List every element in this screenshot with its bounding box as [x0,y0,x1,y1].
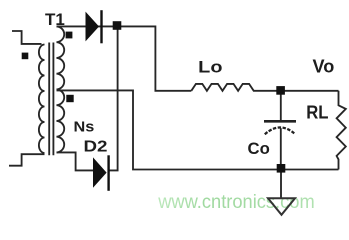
svg-text:T1: T1 [45,10,65,29]
svg-text:Ns: Ns [74,119,95,136]
svg-text:Vo: Vo [313,57,335,77]
svg-text:Lo: Lo [198,58,222,77]
svg-text:RL: RL [306,103,328,123]
svg-text:Co: Co [248,139,270,158]
svg-text:D2: D2 [84,139,108,156]
